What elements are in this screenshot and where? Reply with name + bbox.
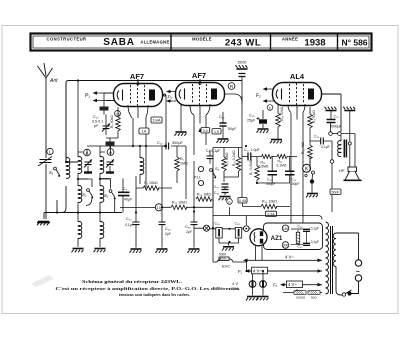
svg-text:Schéma général du récepteur 24: Schéma général du récepteur 243WL. (82, 279, 182, 284)
resistor R2 vertical (116, 117, 121, 131)
svg-text:R₂ 40kΩ: R₂ 40kΩ (110, 115, 114, 128)
coil choke under tube1 (140, 158, 144, 175)
resistor R22 horizontal (261, 204, 277, 208)
circled 1,5 (115, 111, 121, 117)
svg-text:R₁₆ 0,1MΩ: R₁₆ 0,1MΩ (232, 150, 236, 166)
svg-text:C₂₀: C₂₀ (93, 115, 99, 119)
trimmer capacitor C3 (106, 160, 114, 168)
tube U1 AF7 (114, 84, 163, 107)
ground fuse2 (257, 297, 269, 301)
wire AZ1 filament drops (256, 245, 263, 260)
capacitor C10 (133, 222, 140, 225)
wire tube1 left lead (104, 93, 114, 101)
svg-text:4 V~: 4 V~ (285, 255, 294, 260)
wire AL4 pins (288, 104, 305, 229)
wire grid caps to bus (138, 81, 200, 85)
svg-text:1A: 1A (142, 129, 147, 134)
power transformer core (331, 226, 333, 294)
svg-text:Ant: Ant (49, 78, 58, 84)
scan smudge (31, 275, 54, 287)
svg-text:0,45: 0,45 (239, 199, 246, 203)
wire left leg lower (44, 186, 66, 219)
svg-text:AF7: AF7 (192, 71, 206, 80)
box 1mA (151, 117, 162, 123)
box 1kO (212, 129, 221, 135)
power box rounded (264, 223, 323, 250)
resistor R10 horizontal (196, 197, 212, 201)
circled 300 (282, 242, 289, 249)
svg-text:0,1μF: 0,1μF (311, 227, 319, 231)
svg-text:25000: 25000 (238, 61, 247, 65)
terminal circle x332 (330, 160, 334, 164)
ground speaker line top (343, 107, 355, 111)
circled A no1 (84, 149, 91, 156)
mains switch (342, 293, 345, 296)
ground C25 top (325, 107, 337, 111)
svg-text:0,1MΩ: 0,1MΩ (277, 164, 287, 168)
trimmer pad bar 1 (84, 171, 92, 173)
wire tube2 anode to C20 (225, 94, 243, 198)
svg-text:40μF: 40μF (124, 198, 133, 202)
svg-text:0,5MΩ: 0,5MΩ (259, 165, 269, 169)
svg-text:R₂ 50kΩ: R₂ 50kΩ (312, 110, 316, 123)
resistor EXC (213, 261, 217, 263)
svg-text:S₃: S₃ (104, 193, 109, 198)
svg-text:R₂₂ 10kΩ: R₂₂ 10kΩ (262, 200, 277, 204)
coil L1 left column (66, 158, 70, 175)
terminals PU (198, 166, 203, 171)
wire mains bottom to switch (336, 267, 359, 296)
coil L7 bottom (100, 222, 104, 239)
ground fuse1 (246, 297, 258, 301)
svg-text:tensions sont indiquées dans l: tensions sont indiquées dans les cadres. (119, 292, 190, 297)
wire tube2 pins down (190, 104, 210, 155)
capacitor C32 (161, 146, 163, 222)
ground tube2 cathode (180, 104, 182, 131)
svg-text:1938: 1938 (304, 38, 325, 49)
svg-text:1MΩ: 1MΩ (180, 162, 188, 166)
capacitor C17 electrolytic (222, 184, 229, 187)
tube U2 AF7 (176, 83, 225, 106)
svg-text:50μF: 50μF (228, 127, 237, 131)
wire tube1 anode lead (163, 95, 167, 143)
svg-text:C₃₂: C₃₂ (165, 227, 171, 231)
coil L2 upper (78, 157, 82, 174)
ground coil L7 (94, 249, 106, 253)
output transformer core (344, 140, 346, 158)
svg-text:F₂: F₂ (256, 93, 261, 99)
svg-text:1,5: 1,5 (214, 130, 219, 134)
fuse 2 (260, 281, 267, 288)
circled K (303, 164, 311, 172)
svg-text:ALLEMAGNE: ALLEMAGNE (140, 40, 169, 45)
resistor R1k box under P1 (100, 107, 109, 111)
capacitor C33 (193, 161, 195, 222)
ground C10 (130, 249, 142, 253)
wire fuses drop (247, 260, 264, 281)
svg-text:C₃₆: C₃₆ (215, 222, 221, 226)
output transformer coil (338, 141, 341, 157)
heater row A 4V (247, 259, 323, 261)
wire coil1 top (78, 81, 133, 158)
header divider 3 (337, 34, 339, 50)
mains terminal 1 (355, 260, 361, 266)
svg-text:4 V~: 4 V~ (253, 268, 262, 273)
svg-text:C₃₃: C₃₃ (185, 225, 191, 229)
svg-text:0,1μF: 0,1μF (125, 223, 134, 227)
capacitor C14 (166, 143, 169, 150)
svg-text:0,6: 0,6 (203, 129, 208, 133)
wire terminal row (194, 207, 251, 262)
switch S1 (54, 167, 61, 177)
header divider 2 (270, 34, 272, 50)
svg-text:50nF: 50nF (331, 190, 340, 194)
svg-text:F₂: F₂ (273, 283, 278, 288)
svg-text:AZ1: AZ1 (271, 235, 283, 242)
wire coil1 bottom (78, 166, 88, 186)
wire mains top (336, 233, 359, 260)
switch S3 (109, 190, 116, 200)
svg-text:P₂: P₂ (168, 95, 173, 100)
svg-text:R₃ 10kΩ: R₃ 10kΩ (144, 181, 158, 185)
box 0.6 (201, 128, 210, 134)
header divider 1 (170, 34, 172, 50)
svg-text:AF7: AF7 (130, 72, 144, 81)
svg-text:C₃₄: C₃₄ (297, 225, 303, 229)
svg-text:2μF: 2μF (165, 232, 171, 236)
svg-text:C₈ 0,1μF: C₈ 0,1μF (206, 149, 221, 153)
resistor R18 horizontal (262, 155, 272, 159)
svg-text:C₁₈: C₁₈ (214, 191, 220, 195)
arrow on wire (198, 128, 201, 132)
svg-text:R₁₀ 1MΩ: R₁₀ 1MΩ (197, 193, 211, 197)
variable capacitor tuning C1 (38, 157, 52, 167)
svg-text:0,5-0,1: 0,5-0,1 (92, 120, 103, 124)
header banner outer frame (31, 34, 372, 51)
ground antenna (37, 222, 49, 226)
inductor L circled (47, 148, 53, 154)
svg-text:R₂₀ 50kΩ: R₂₀ 50kΩ (280, 106, 284, 121)
ground C15 (217, 139, 229, 143)
svg-text:C₁₅: C₁₅ (219, 115, 225, 119)
svg-text:C₁₄: C₁₄ (157, 141, 163, 145)
svg-text:400pF: 400pF (266, 182, 275, 186)
heater row D resistors (283, 292, 322, 294)
terminal circle C25 (329, 132, 333, 136)
svg-text:0,1μF: 0,1μF (311, 240, 319, 244)
svg-text:25μF: 25μF (247, 119, 256, 123)
svg-text:5000: 5000 (219, 253, 226, 257)
svg-text:P.U.: P.U. (194, 176, 201, 180)
svg-text:1mA: 1mA (152, 118, 161, 123)
wire junction row y162 (57, 162, 78, 213)
capacitor C21 (268, 171, 278, 175)
svg-text:b: b (229, 200, 231, 204)
wire B plus rail (213, 207, 322, 225)
svg-text:R₁₂ 10kΩ: R₁₂ 10kΩ (172, 200, 187, 204)
svg-text:50Ω: 50Ω (311, 296, 317, 300)
svg-text:P₁: P₁ (85, 93, 90, 99)
svg-text:CONSTRUCTEUR: CONSTRUCTEUR (47, 37, 87, 42)
arrows heater rows right end (318, 259, 323, 287)
wire C20 junction down (242, 203, 244, 207)
svg-text:300: 300 (283, 244, 289, 248)
ground SK (306, 194, 318, 198)
svg-text:243 WL: 243 WL (225, 38, 261, 49)
svg-text:400pF: 400pF (290, 182, 299, 186)
resistor R3 horizontal (143, 186, 159, 190)
wire antenna to ground (45, 164, 47, 219)
svg-text:R₁₇ 0,5MΩ: R₁₇ 0,5MΩ (249, 159, 253, 175)
coil L4 bottom (78, 222, 82, 239)
svg-text:SABA: SABA (103, 37, 135, 48)
circled 10 (155, 204, 162, 211)
svg-text:C₂₉: C₂₉ (249, 114, 255, 118)
ground C17 (219, 197, 231, 201)
header banner inner frame (33, 36, 369, 48)
switch S4 (210, 169, 217, 179)
svg-text:N° 586: N° 586 (341, 38, 367, 48)
power transformer primary winding (326, 222, 329, 294)
wire C25 column down (331, 141, 333, 212)
svg-text:HP: HP (339, 169, 345, 173)
resistor R20 vertical (276, 113, 281, 127)
resistor R19 horizontal (272, 155, 298, 159)
svg-text:C₁₇: C₁₇ (214, 185, 220, 189)
switch SK (312, 171, 315, 174)
svg-text:MODÈLE: MODÈLE (192, 37, 212, 42)
svg-text:ANNÉE: ANNÉE (282, 37, 298, 42)
svg-text:0,1μF: 0,1μF (321, 145, 330, 149)
terminal circle B plus (338, 132, 342, 136)
svg-text:S₂: S₂ (82, 192, 87, 197)
wire speaker feeds (348, 142, 351, 145)
svg-text:2μF: 2μF (186, 230, 192, 234)
svg-text:AL4: AL4 (290, 72, 305, 81)
tube U3 AL4 (273, 83, 322, 106)
svg-text:C₃₀: C₃₀ (314, 135, 320, 139)
terminal HT (244, 226, 250, 232)
wire coil2 bottom (100, 166, 110, 186)
resistor R16 vertical (236, 157, 241, 171)
resistor R17 vertical (255, 166, 260, 180)
rectifier AZ1 (250, 229, 267, 246)
wire row 212 (57, 212, 122, 214)
box 0.3A on rail (266, 211, 277, 216)
circled 150 (282, 225, 289, 232)
ground R20 (270, 140, 282, 144)
ground C32 (156, 249, 168, 253)
resistor R12 horizontal (171, 205, 187, 209)
wires inside power box (291, 229, 307, 244)
ground C33 (188, 249, 200, 253)
svg-text:R₅: R₅ (180, 157, 185, 161)
wire coil2 top (100, 146, 111, 157)
power transformer secondary winding (333, 233, 336, 267)
resistor R5 vertical (175, 157, 180, 171)
box 0.45 right (238, 198, 247, 204)
trimmer pad bar 2 (106, 171, 114, 173)
coil L5 upper (100, 157, 104, 174)
circled b AL4 (267, 105, 273, 111)
svg-text:C₁₀: C₁₀ (126, 217, 132, 221)
resistor R2b vertical AL4 (308, 114, 313, 128)
circled R (228, 83, 235, 90)
svg-text:C₃₅: C₃₅ (297, 245, 303, 249)
svg-text:C₂₀ 1,0μF: C₂₀ 1,0μF (244, 148, 261, 152)
svg-text:F₁: F₁ (238, 269, 243, 274)
coil L3 lower (78, 186, 82, 203)
wire mid horizontals (257, 182, 290, 184)
box 7A (139, 128, 149, 134)
coil L6 lower (100, 186, 104, 203)
svg-text:150: 150 (283, 227, 289, 231)
circled A no2 (107, 149, 114, 156)
svg-text:4 V~: 4 V~ (288, 282, 297, 287)
circled b2 (227, 199, 233, 205)
antenna Ant (38, 63, 53, 158)
svg-text:5000μF: 5000μF (330, 125, 342, 129)
svg-text:C₉: C₉ (123, 187, 128, 191)
wire AL4 anode to transformer (322, 94, 342, 132)
capacitor C22 (285, 171, 295, 175)
svg-text:S₁: S₁ (49, 170, 54, 175)
wire row 146 with C14 (133, 145, 186, 147)
wire row 207 (120, 176, 155, 222)
resistor box 5000 (106, 142, 115, 146)
svg-text:300μF: 300μF (172, 141, 184, 145)
terminal M (204, 225, 210, 231)
resistor R21 vertical (308, 145, 313, 159)
resistor 5000 vertical box (296, 232, 299, 243)
svg-text:C'est un récepteur à amplifica: C'est un récepteur à amplification direc… (56, 286, 241, 291)
wire tube1 pins down (128, 105, 148, 188)
svg-text:1,5: 1,5 (115, 112, 120, 116)
mains terminal 2 (355, 275, 361, 281)
ground coil L4 (72, 249, 84, 253)
trimmer capacitor C2 (84, 160, 92, 168)
svg-text:EXC: EXC (222, 264, 230, 269)
wire top bus (66, 81, 242, 163)
ground C36 C37 (222, 247, 234, 251)
fuse 1 (249, 281, 256, 288)
svg-text:S₄: S₄ (215, 167, 220, 171)
svg-text:R₁₅ 40kΩ: R₁₅ 40kΩ (225, 152, 229, 166)
svg-text:b: b (269, 106, 271, 110)
box 50mA (330, 189, 341, 195)
svg-text:C₂₅: C₂₅ (334, 115, 340, 119)
svg-text:R₂₁ 4kΩ: R₂₁ 4kΩ (301, 142, 305, 154)
switch S2 (87, 189, 94, 199)
svg-text:10: 10 (157, 206, 161, 210)
svg-text:1000Ω: 1000Ω (296, 296, 306, 300)
wire grid bias row (213, 148, 242, 208)
ground C29 (257, 129, 269, 133)
resistor R15 vertical (222, 157, 227, 171)
svg-text:C₃₈: C₃₈ (235, 222, 241, 226)
